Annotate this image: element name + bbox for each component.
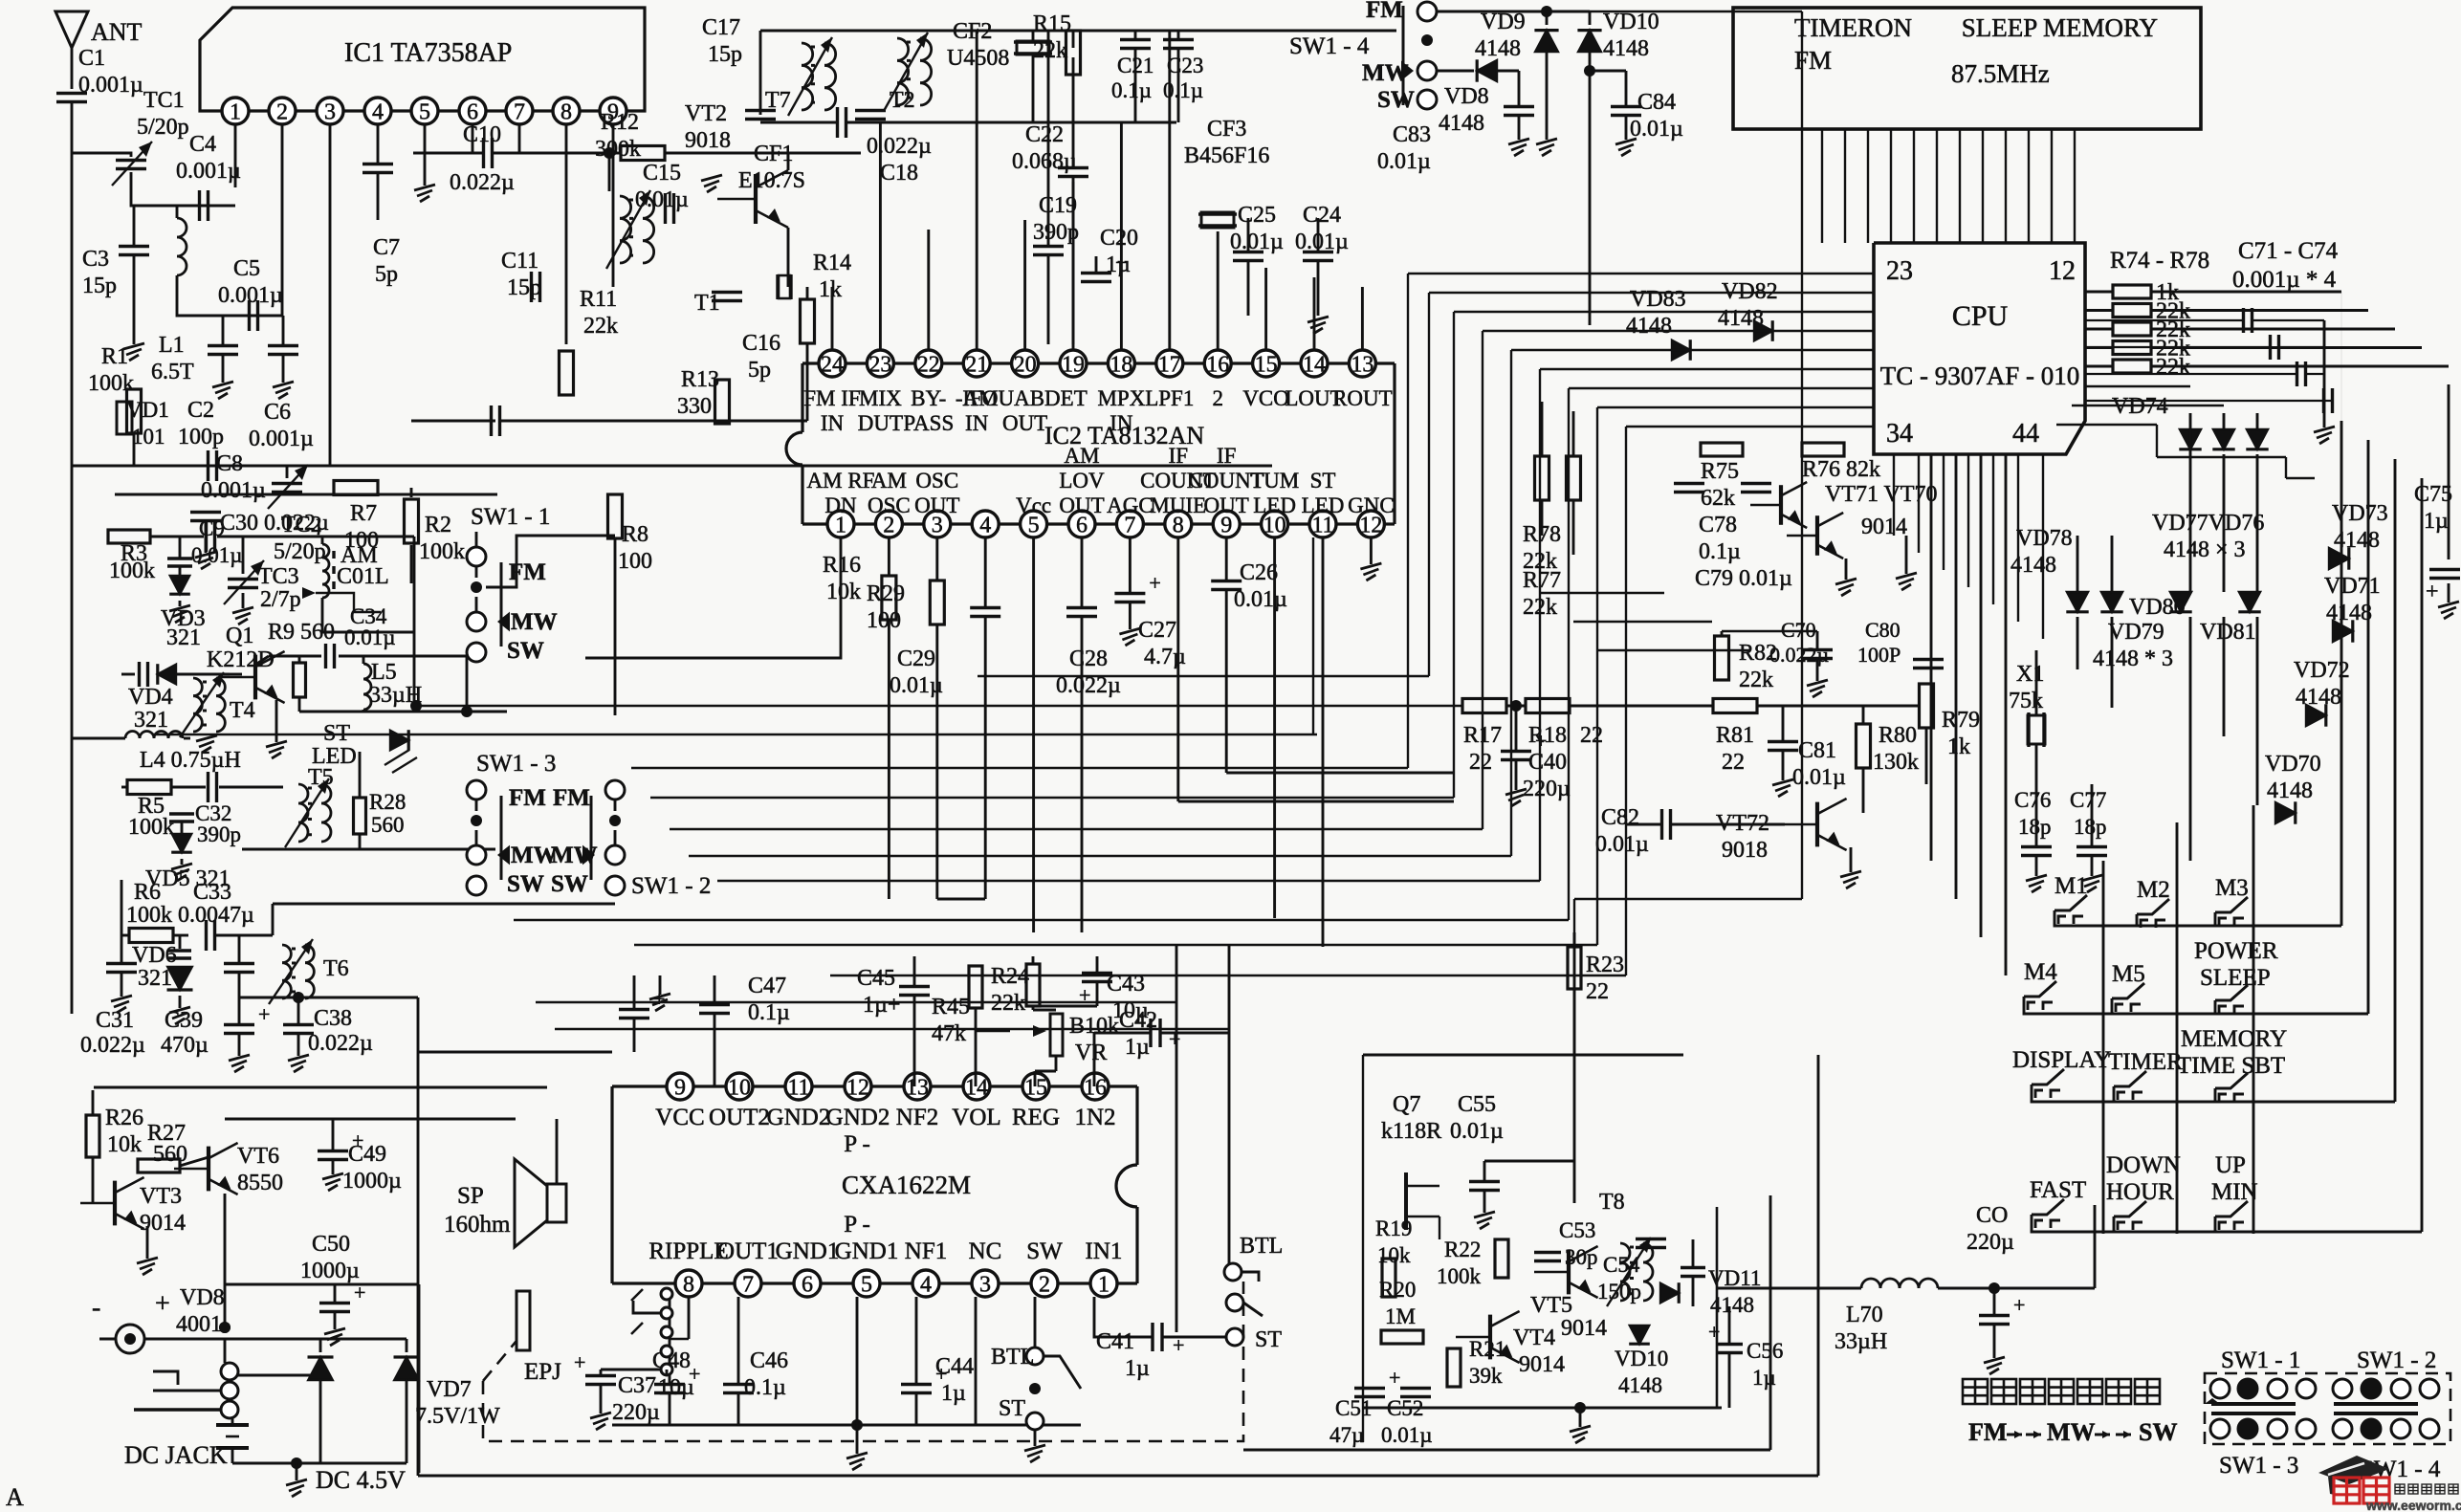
wire — [831, 287, 834, 350]
capacitor C7 — [363, 163, 393, 165]
svg-text:SW: SW — [2139, 1418, 2177, 1446]
svg-text:TIMERON: TIMERON — [1794, 13, 1912, 42]
capacitor C55 — [1469, 1180, 1500, 1183]
wire — [150, 536, 204, 538]
svg-text:22: 22 — [917, 353, 940, 378]
svg-text:321: 321 — [134, 708, 168, 733]
ceramic filter CF1 E10.7S — [776, 274, 779, 299]
svg-text:100k: 100k — [109, 559, 155, 583]
svg-text:C55: C55 — [1458, 1092, 1496, 1117]
wire — [1437, 11, 1590, 13]
ecap C38 — [283, 1023, 314, 1026]
svg-text:47µ: 47µ — [1329, 1423, 1364, 1447]
capacitor pin blob — [490, 405, 493, 436]
ecap C50 1000u — [319, 1302, 350, 1304]
diode VD72 — [2306, 704, 2326, 726]
CXA1622M body — [612, 1085, 667, 1087]
capacitor C47 0.1u — [699, 1003, 730, 1006]
svg-text:0.01µ: 0.01µ — [1295, 230, 1349, 254]
wire bottom of block — [1363, 1407, 1722, 1410]
svg-text:0.01µ: 0.01µ — [890, 673, 943, 698]
svg-text:1µ: 1µ — [1125, 1035, 1150, 1060]
capacitor C1 — [56, 92, 87, 95]
svg-text:Q1: Q1 — [226, 624, 253, 648]
svg-text:C71 - C74: C71 - C74 — [2238, 238, 2339, 264]
battery — [216, 1423, 249, 1427]
switch contact — [2296, 1379, 2316, 1398]
svg-text:6: 6 — [467, 100, 478, 125]
wire dc block — [144, 1338, 225, 1341]
svg-text:470µ: 470µ — [161, 1033, 209, 1058]
resistor R82 22k — [1715, 636, 1729, 680]
switch contact — [2296, 1419, 2316, 1438]
svg-text:300k: 300k — [595, 137, 641, 162]
capacitor C71 — [2242, 308, 2245, 333]
svg-text:4148: 4148 — [1603, 36, 1649, 61]
svg-text:IN: IN — [1110, 411, 1133, 435]
wire — [1047, 31, 1050, 246]
svg-text:0.01µ: 0.01µ — [1792, 765, 1846, 790]
CXA pin 4 — [912, 1270, 939, 1297]
IC2 pin 24 — [819, 350, 846, 377]
svg-text:18: 18 — [1110, 353, 1132, 378]
svg-text:M3: M3 — [2215, 875, 2249, 901]
wire — [176, 206, 179, 218]
svg-text:P -: P - — [844, 1212, 870, 1238]
diode VD70 — [2275, 801, 2296, 823]
svg-text:OSC: OSC — [915, 469, 958, 493]
svg-text:FM: FM — [1968, 1418, 2007, 1446]
svg-text:ST: ST — [999, 1396, 1025, 1421]
svg-text:1N2: 1N2 — [1074, 1105, 1115, 1130]
wire — [72, 153, 131, 157]
svg-text:100k: 100k — [1437, 1264, 1482, 1288]
CXA pin 9 — [667, 1073, 693, 1100]
svg-text:VD10: VD10 — [1603, 10, 1659, 34]
key M5 — [2112, 983, 2144, 998]
svg-text:4148: 4148 — [1618, 1373, 1662, 1397]
svg-text:100k: 100k — [126, 903, 172, 928]
svg-text:C37: C37 — [618, 1373, 656, 1398]
svg-text:R21: R21 — [1469, 1337, 1505, 1361]
svg-text:+: + — [258, 1002, 270, 1026]
svg-text:MPX: MPX — [1097, 386, 1145, 410]
CXA pin 7 — [735, 1270, 761, 1297]
svg-text:BTL: BTL — [991, 1345, 1034, 1370]
capacitor C31 — [106, 962, 137, 965]
IC2 pin 6 — [1068, 511, 1095, 537]
svg-text:9014: 9014 — [1519, 1352, 1565, 1377]
svg-text:SLEEP: SLEEP — [2200, 965, 2271, 991]
wire pin7 stub — [518, 124, 521, 153]
wire pin8 stub — [565, 124, 568, 344]
transistor VT72 9018 — [1815, 802, 1819, 847]
capacitor C8 — [207, 450, 209, 481]
transistor VT6 8550 — [207, 1147, 210, 1192]
svg-text:15p: 15p — [708, 42, 742, 67]
svg-text:15p: 15p — [507, 275, 541, 300]
svg-text:NC: NC — [969, 1238, 1002, 1264]
svg-text:NF2: NF2 — [896, 1105, 938, 1130]
CXA pin 10 — [726, 1073, 753, 1100]
ground — [701, 175, 722, 181]
transformer T7 — [802, 43, 813, 65]
svg-text:100k: 100k — [88, 371, 134, 396]
svg-text:22k: 22k — [1033, 38, 1067, 63]
IC2 pin 21 — [963, 350, 990, 377]
wire top buses — [94, 1086, 547, 1089]
IC1 box — [200, 8, 645, 111]
svg-text:13: 13 — [1351, 353, 1373, 378]
wire — [131, 172, 235, 206]
wire bottom bus 2 — [1243, 1449, 1770, 1452]
ecap C48 10u — [654, 1383, 685, 1386]
svg-text:4148: 4148 — [1710, 1293, 1754, 1317]
svg-text:POWER: POWER — [2194, 938, 2278, 964]
ecap C49 1000u — [318, 1150, 348, 1152]
svg-text:C80: C80 — [1865, 618, 1901, 642]
svg-text:0.01µ: 0.01µ — [635, 187, 689, 212]
svg-text:C38: C38 — [314, 1006, 352, 1031]
wire — [92, 1090, 95, 1115]
capacitor C25 — [1233, 251, 1263, 253]
wire — [475, 800, 478, 811]
watermark cap logo — [2318, 1456, 2389, 1484]
svg-text:R7: R7 — [350, 501, 377, 526]
svg-text:1µ: 1µ — [1752, 1366, 1776, 1390]
svg-text:SW1 - 3: SW1 - 3 — [2219, 1453, 2298, 1479]
diode VD7 — [394, 1357, 420, 1380]
ceramic filter CF2 U4508 — [1014, 40, 1052, 43]
ecap C43 10u — [1082, 972, 1112, 975]
svg-text:1µ: 1µ — [2424, 509, 2449, 534]
IC1 pin 9 — [600, 98, 626, 124]
svg-text:REG: REG — [1012, 1105, 1060, 1130]
svg-text:+: + — [574, 1350, 585, 1374]
svg-text:0.1µ: 0.1µ — [748, 1000, 790, 1025]
wire — [1573, 1055, 1576, 1203]
svg-text:C49: C49 — [348, 1142, 386, 1167]
svg-text:0.1µ: 0.1µ — [1111, 78, 1152, 102]
svg-text:330: 330 — [677, 394, 712, 419]
resistor R15 22k — [1066, 31, 1081, 75]
capacitor C3 — [119, 245, 149, 248]
svg-text:Q7: Q7 — [1393, 1092, 1420, 1117]
svg-text:16: 16 — [1206, 353, 1229, 378]
svg-text:321: 321 — [166, 625, 201, 650]
CXA pin 3 — [972, 1270, 999, 1297]
svg-text:www.eeworm.com: www.eeworm.com — [2365, 1498, 2461, 1512]
capacitor C10 — [482, 138, 485, 168]
svg-text:10: 10 — [728, 1076, 751, 1101]
svg-text:GND2: GND2 — [767, 1105, 831, 1130]
svg-text:C8: C8 — [216, 451, 243, 476]
svg-text:C70: C70 — [1781, 618, 1816, 642]
svg-text:FM: FM — [1366, 0, 1403, 23]
svg-text:4148: 4148 — [1626, 314, 1672, 339]
capacitor T6cap — [224, 962, 254, 965]
transistor Q7 k118R (FET) — [1404, 1172, 1408, 1230]
capacitor C30 — [205, 521, 208, 552]
svg-text:C81: C81 — [1798, 738, 1836, 763]
svg-text:33µH: 33µH — [1835, 1329, 1887, 1354]
key DOWN HOUR — [2114, 1201, 2146, 1216]
ecap C20 1u — [1081, 272, 1111, 274]
svg-text:C11: C11 — [501, 249, 538, 274]
svg-text:321: 321 — [138, 966, 172, 991]
svg-text:C75: C75 — [2414, 482, 2452, 507]
variable capacitor TC3 — [228, 578, 258, 581]
svg-text:9018: 9018 — [1722, 838, 1768, 863]
svg-text:19: 19 — [1062, 353, 1085, 378]
svg-text:VD83: VD83 — [1630, 287, 1686, 312]
svg-text:+: + — [1169, 1027, 1180, 1051]
inductor L4 — [125, 732, 140, 738]
resistor R1 100k — [127, 389, 142, 433]
svg-text:R18: R18 — [1528, 723, 1567, 748]
svg-text:C78: C78 — [1699, 513, 1737, 537]
svg-text:C27: C27 — [1138, 618, 1176, 643]
svg-text:VD77VD76: VD77VD76 — [2152, 511, 2264, 536]
svg-text:160hm: 160hm — [444, 1212, 511, 1238]
svg-text:HOUR: HOUR — [2106, 1179, 2174, 1205]
svg-text:C46: C46 — [750, 1348, 788, 1373]
svg-text:9: 9 — [674, 1076, 686, 1101]
svg-text:CO: CO — [1976, 1203, 2008, 1228]
resistor R18 22 — [1526, 699, 1570, 713]
svg-text:100k: 100k — [128, 815, 174, 840]
capacitor C46 0.1u — [723, 1383, 754, 1386]
transistor VT70 — [1815, 515, 1819, 556]
svg-text:10k: 10k — [1377, 1243, 1411, 1267]
svg-text:10k: 10k — [107, 1132, 142, 1157]
capacitor C4 — [198, 190, 201, 221]
svg-text:130k: 130k — [1873, 750, 1919, 775]
svg-text:C44: C44 — [935, 1354, 974, 1379]
resistor R21 39k — [1447, 1348, 1461, 1387]
svg-text:5/20p: 5/20p — [274, 539, 326, 564]
svg-text:T1: T1 — [694, 291, 720, 316]
svg-text:R12: R12 — [601, 110, 639, 135]
resistor R8 100 — [608, 494, 623, 538]
dc plug — [116, 1325, 144, 1353]
svg-text:4: 4 — [372, 100, 384, 125]
svg-text:4148: 4148 — [2267, 778, 2313, 803]
svg-text:IN1: IN1 — [1086, 1238, 1123, 1264]
resistor R75 22k — [2113, 304, 2151, 318]
svg-text:+: + — [2013, 1293, 2025, 1317]
svg-text:0.022µ: 0.022µ — [308, 1031, 373, 1056]
svg-text:C53: C53 — [1559, 1218, 1595, 1242]
svg-text:TC1: TC1 — [143, 88, 185, 113]
capacitor C22 — [1058, 166, 1088, 169]
diode VD4 321 — [158, 664, 176, 685]
key POWER SLEEP — [2215, 985, 2248, 1000]
CXA pin 2 — [1031, 1270, 1058, 1297]
svg-text:GND1: GND1 — [776, 1238, 840, 1264]
svg-text:VD4: VD4 — [128, 685, 173, 710]
svg-text:C33: C33 — [193, 880, 231, 905]
svg-text:CXA1622M: CXA1622M — [842, 1171, 971, 1199]
capacitor C70 — [1802, 648, 1833, 651]
svg-text:C18: C18 — [880, 161, 918, 186]
svg-text:8: 8 — [683, 1273, 694, 1298]
svg-text:E10.7S: E10.7S — [738, 168, 805, 193]
svg-text:SW1 - 1: SW1 - 1 — [471, 504, 550, 530]
CXA pin 11 — [785, 1073, 812, 1100]
diode VD6 321 — [167, 967, 193, 990]
IC1 pin 4 — [364, 98, 391, 124]
svg-text:TC3: TC3 — [258, 564, 299, 589]
svg-text:3: 3 — [979, 1273, 991, 1298]
wire right mid links — [1540, 592, 1664, 594]
svg-text:R19: R19 — [1375, 1216, 1412, 1240]
svg-text:MW: MW — [511, 609, 558, 635]
svg-text:39k: 39k — [1469, 1364, 1503, 1388]
CXA pin 13 — [904, 1073, 931, 1100]
svg-text:TC - 9307AF - 010: TC - 9307AF - 010 — [1880, 362, 2080, 390]
wire — [71, 102, 74, 466]
svg-text:GND1: GND1 — [835, 1238, 899, 1264]
svg-text:AGC: AGC — [1107, 493, 1154, 517]
IC2 pin 3 — [924, 511, 951, 537]
svg-text:0.01µ: 0.01µ — [344, 625, 396, 649]
display bus wires — [1821, 129, 1823, 243]
CXA pin 8 — [675, 1270, 702, 1297]
jack contacts — [221, 1363, 238, 1380]
wire gnd bus — [612, 1424, 1081, 1427]
svg-text:4: 4 — [920, 1273, 932, 1298]
svg-text:R13: R13 — [681, 367, 719, 392]
variable capacitor TC1 — [116, 159, 146, 162]
svg-text:SW: SW — [1377, 87, 1415, 113]
IC2 pin 4 — [972, 511, 999, 537]
svg-text:FM IF: FM IF — [803, 386, 860, 410]
svg-text:R23: R23 — [1586, 953, 1624, 977]
svg-text:560: 560 — [371, 813, 405, 837]
capacitor C73 — [2296, 362, 2298, 386]
ecap C44 1u — [901, 1383, 932, 1386]
svg-text:R77: R77 — [1523, 568, 1561, 593]
svg-text:C5: C5 — [233, 256, 260, 281]
svg-text:21: 21 — [965, 353, 988, 378]
wire key cols — [2102, 861, 2105, 1234]
svg-text:12: 12 — [846, 1076, 869, 1101]
svg-text:C24: C24 — [1303, 203, 1341, 228]
svg-text:0.022µ: 0.022µ — [80, 1033, 145, 1058]
capacitor C80 100P — [1913, 658, 1944, 661]
svg-text:7: 7 — [742, 1273, 754, 1298]
transistor VT71 — [1779, 485, 1783, 525]
resistor R45 47k — [969, 966, 982, 1008]
IC2 pin 10 — [1262, 511, 1288, 537]
svg-text:1µ: 1µ — [1125, 1356, 1150, 1381]
capacitor C17 15p — [745, 109, 776, 112]
svg-text:C40: C40 — [1528, 750, 1567, 775]
svg-text:MEMORY: MEMORY — [2181, 1026, 2287, 1052]
svg-text:0.022µ: 0.022µ — [867, 134, 932, 159]
svg-text:2: 2 — [1212, 386, 1223, 410]
svg-text:VD79: VD79 — [2108, 620, 2164, 645]
svg-text:0.022µ: 0.022µ — [450, 170, 515, 195]
resistor R14 1k — [801, 299, 815, 343]
svg-text:0.068µ: 0.068µ — [1012, 149, 1077, 174]
svg-text:0.001µ: 0.001µ — [249, 427, 314, 451]
IC1 pin 1 — [222, 98, 249, 124]
svg-text:1µ: 1µ — [1106, 252, 1131, 277]
dashed band switch box — [2205, 1373, 2450, 1444]
CPU box TC-9307AF-010 — [1874, 243, 2085, 454]
svg-text:100k: 100k — [419, 539, 465, 564]
svg-text:3: 3 — [324, 100, 336, 125]
svg-text:C20: C20 — [1100, 226, 1138, 251]
svg-text:CF3: CF3 — [1207, 117, 1246, 142]
CXA pin 1 — [1090, 1270, 1117, 1297]
IC2 pin 2 — [875, 511, 902, 537]
wire diode matrix — [2189, 413, 2192, 592]
svg-text:12: 12 — [2049, 256, 2076, 286]
ground pin12 — [1370, 537, 1373, 564]
svg-text:M1: M1 — [2054, 873, 2088, 899]
key M2 — [2137, 899, 2169, 914]
svg-text:2: 2 — [1039, 1273, 1050, 1298]
wire — [1228, 945, 1231, 1263]
svg-text:SP: SP — [457, 1183, 484, 1209]
svg-text:CF1: CF1 — [754, 142, 793, 166]
capacitor C83 — [1504, 105, 1534, 108]
svg-text:0.01µ: 0.01µ — [1381, 1423, 1433, 1447]
svg-text:6.5T: 6.5T — [151, 360, 194, 384]
svg-text:M4: M4 — [2024, 959, 2057, 985]
svg-text:ROUT: ROUT — [1332, 386, 1393, 410]
IC2 pin 7 — [1116, 511, 1143, 537]
switch contact — [2210, 1419, 2230, 1438]
svg-text:C47: C47 — [748, 974, 786, 998]
resistor R76 82k — [1802, 443, 1844, 456]
switch contact — [2391, 1379, 2410, 1398]
wire — [1032, 55, 1035, 122]
svg-text:390p: 390p — [197, 822, 241, 846]
ground — [212, 382, 233, 387]
svg-text:62k: 62k — [1701, 486, 1735, 511]
svg-text:R80: R80 — [1879, 723, 1917, 748]
svg-text:GNC: GNC — [1348, 493, 1395, 517]
wire — [516, 535, 615, 537]
resistor R23 22 — [1568, 947, 1581, 989]
svg-text:VD8: VD8 — [180, 1285, 225, 1310]
svg-text:0.001µ: 0.001µ — [218, 283, 283, 308]
key TIMER — [2114, 1071, 2146, 1086]
potentiometer B10k VR — [1050, 1014, 1063, 1056]
svg-text:1: 1 — [1098, 1273, 1110, 1298]
svg-text:47k: 47k — [932, 1021, 966, 1046]
svg-text:FM: FM — [509, 559, 546, 585]
wire Q1 out — [269, 655, 321, 658]
CXA pin 5 — [853, 1270, 880, 1297]
ecap C56 1u — [1716, 1343, 1743, 1346]
wire — [377, 124, 380, 164]
IC1 pin 2 — [269, 98, 296, 124]
resistor R13 330 — [715, 380, 730, 424]
svg-text:4148: 4148 — [2326, 601, 2372, 625]
svg-text:5: 5 — [419, 100, 430, 125]
svg-text:LOV: LOV — [1059, 469, 1105, 493]
IC1 pin 8 — [553, 98, 580, 124]
diodes VD77 VD76 row — [2179, 429, 2201, 449]
capacitor C32 390p — [169, 812, 194, 815]
svg-text:ST: ST — [1310, 469, 1336, 493]
svg-text:C19: C19 — [1039, 193, 1077, 218]
